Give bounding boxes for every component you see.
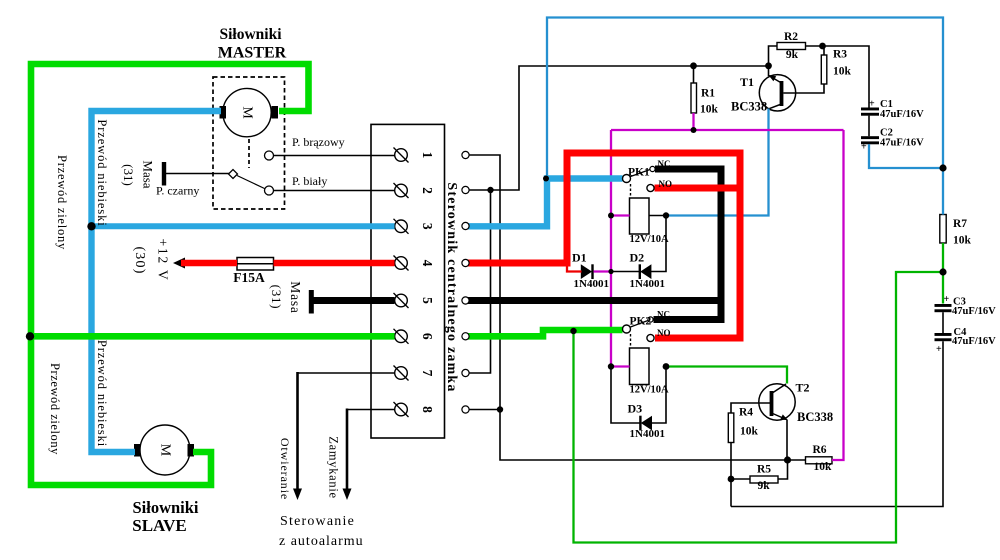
node magenta PK2 coil <box>608 363 614 369</box>
svg-text:1: 1 <box>420 152 435 159</box>
svg-text:7: 7 <box>420 370 435 377</box>
svg-text:Przewód niebieski: Przewód niebieski <box>95 340 109 447</box>
wire T1 collector to R3 bottom <box>783 84 824 93</box>
resistor R7 <box>940 215 946 244</box>
connector circle row 2 <box>462 186 469 193</box>
motor MASTER right tab <box>272 106 279 119</box>
svg-text:1N4001: 1N4001 <box>574 278 609 290</box>
wire thin red fuse branch to D1 anode <box>567 262 582 272</box>
svg-text:NC: NC <box>658 159 671 169</box>
node R1 bottom magenta <box>691 127 697 133</box>
wire thick red terminal4 right up and over to PK relays <box>468 153 740 338</box>
wire terminal8 circle to vertical bus <box>469 409 501 411</box>
svg-text:Zamykanie: Zamykanie <box>327 436 341 499</box>
svg-text:5: 5 <box>420 297 435 304</box>
svg-text:47uF/16V: 47uF/16V <box>880 109 924 120</box>
terminal 7 <box>394 366 409 381</box>
svg-text:47uF/16V: 47uF/16V <box>952 336 996 347</box>
connector circle row 3 <box>462 222 469 229</box>
relay PK2 NO contact <box>647 334 654 341</box>
motor SLAVE right tab <box>188 444 195 457</box>
wire D2 cathode row and up to PK1 coil junction <box>611 271 639 273</box>
transistor T2 <box>759 384 795 420</box>
ground bar Masa31 terminal5 <box>309 290 314 314</box>
node thin green taps thick green <box>570 328 576 334</box>
wire thick green terminal6 left <box>31 333 395 340</box>
svg-text:(31): (31) <box>269 285 284 310</box>
wire T2 emitter down to node <box>786 420 788 461</box>
svg-text:+: + <box>869 99 875 110</box>
svg-text:Przewód niebieski: Przewód niebieski <box>95 119 109 226</box>
svg-text:10k: 10k <box>700 104 719 116</box>
node green R7 junction <box>939 268 946 275</box>
svg-text:1N4001: 1N4001 <box>630 428 665 440</box>
contact circle P.bialy <box>265 186 274 195</box>
relay PK2 NC contact <box>648 317 653 322</box>
svg-text:Przewód zielony: Przewód zielony <box>48 363 62 455</box>
wire R5 right up to emitter node <box>778 460 788 479</box>
motor MASTER left tab <box>220 106 227 119</box>
wire C4 bottom down and left to R4/R5 node <box>731 341 943 506</box>
wire D3 cathode to PK2 coil right junction <box>652 367 667 424</box>
svg-text:Masa: Masa <box>288 281 303 313</box>
wire magenta bus horizontal R1 bottom <box>611 129 844 131</box>
wire thick black terminal5 left to ground <box>313 297 395 304</box>
wire thick black terminal5 right <box>468 297 721 304</box>
svg-text:Sterownik centralnego zamka: Sterownik centralnego zamka <box>444 182 459 392</box>
THIN-BLACK-WIRES <box>166 46 943 507</box>
capacitor C1 <box>861 108 879 116</box>
svg-text:10k: 10k <box>814 461 833 473</box>
wire magenta bus vertical to relay coils <box>610 130 612 367</box>
THIN-COLOR-WIRES <box>547 18 943 543</box>
svg-text:R4: R4 <box>739 407 753 419</box>
svg-text:47uF/16V: 47uF/16V <box>952 306 996 317</box>
diode D2 <box>639 264 652 279</box>
svg-text:4: 4 <box>420 260 435 267</box>
svg-text:D3: D3 <box>628 402 643 416</box>
relay PK2 dashed link <box>630 334 632 348</box>
svg-text:BC338: BC338 <box>731 100 767 114</box>
wire PK1 coil right to junction <box>649 215 666 217</box>
svg-text:P. czarny: P. czarny <box>156 184 199 198</box>
wire R6 left stub <box>788 459 806 461</box>
wire R3 top stub <box>823 46 825 55</box>
connector circle row 4 <box>462 259 469 266</box>
svg-text:M: M <box>240 106 255 119</box>
connector circle row 5 <box>462 297 469 304</box>
wire between C3 and C4 <box>942 312 944 333</box>
wire thick red branch to PK1 NO <box>655 185 741 192</box>
svg-text:R5: R5 <box>757 464 771 476</box>
relay PK1 lever <box>631 170 651 177</box>
resistor R4 <box>728 413 734 443</box>
svg-text:PK2: PK2 <box>630 316 652 328</box>
fuse F15A <box>237 258 274 271</box>
wire thick green left big loop <box>31 64 309 485</box>
svg-text:P. brązowy: P. brązowy <box>292 135 345 149</box>
wire T1 base stub <box>768 65 770 76</box>
node R4 R5 junction <box>728 476 735 483</box>
connector circle row 8 <box>462 406 469 413</box>
wire R1 top stub <box>693 66 695 83</box>
svg-text:D2: D2 <box>630 251 645 265</box>
capacitor C2 <box>861 136 879 144</box>
node magenta D1 D2 row <box>608 269 613 274</box>
svg-text:P. biały: P. biały <box>292 174 327 188</box>
node terminal2 branch <box>487 187 493 193</box>
svg-text:NC: NC <box>657 310 670 320</box>
transistor T1 <box>759 75 795 111</box>
wire PK2 coil left node down to D3 anode <box>611 367 640 424</box>
node R2 R3 junction <box>819 43 826 50</box>
svg-text:6: 6 <box>420 333 435 340</box>
wire magenta R1 bottom stub <box>692 113 694 130</box>
wire thick red fuse to terminal4 <box>274 260 395 267</box>
svg-text:(31): (31) <box>121 164 136 186</box>
wire thin green long loop to thick green wire <box>574 272 944 543</box>
svg-text:Otwieranie: Otwieranie <box>278 438 292 500</box>
node PK2 coil right <box>663 363 670 370</box>
wire R5 left stub <box>731 478 750 480</box>
svg-text:10k: 10k <box>833 66 852 78</box>
arrowhead Zamykanie <box>343 489 352 501</box>
switch lever <box>237 176 265 189</box>
svg-text:12V/10A: 12V/10A <box>630 234 670 245</box>
svg-text:47uF/16V: 47uF/16V <box>880 138 924 149</box>
svg-text:12V/10A: 12V/10A <box>630 385 670 396</box>
wire thin blue T1 emitter to PK1 coil junction <box>666 109 769 216</box>
terminal 4 <box>394 256 409 271</box>
relay PK2 coil <box>630 348 650 385</box>
capacitor C3 <box>935 304 952 312</box>
wire thin blue C2 bottom to right bus <box>869 144 943 168</box>
terminal 6 <box>394 329 409 344</box>
relay PK1 NO contact <box>647 184 654 191</box>
wire thick green terminal6 right to PK2 common <box>468 330 623 336</box>
node T2 emitter R5 R6 junction <box>784 456 791 463</box>
svg-text:Sterowanie: Sterowanie <box>280 514 355 529</box>
wire thick cyan blue loop MASTER to SLAVE <box>92 111 222 452</box>
node T1 base <box>765 62 772 69</box>
svg-text:M: M <box>158 444 173 457</box>
capacitor C4 <box>935 333 952 341</box>
wire P.bialy contact to terminal 2 <box>274 190 395 192</box>
node R1 top <box>690 62 697 69</box>
wire thin green R7 bottom to C3 <box>942 243 944 304</box>
wire terminal2 circle right, up and across top to T1 base <box>469 66 769 190</box>
wire magenta right vertical to R6 <box>832 130 844 460</box>
svg-text:+: + <box>936 344 942 355</box>
wire thick cyan terminal3 right to PK1 common <box>468 179 623 227</box>
wire terminal 8 to Zamykanie arrow <box>347 409 395 411</box>
ground bar Masa31 master <box>162 162 166 186</box>
resistor R2 <box>777 43 806 50</box>
svg-text:NO: NO <box>659 179 673 189</box>
diode D1 <box>581 264 594 279</box>
THICK-WIRES <box>31 64 740 485</box>
motor SLAVE circle <box>140 425 190 475</box>
relay PK1 coil <box>630 198 650 234</box>
wire R2 right to C1 top <box>806 46 870 108</box>
svg-text:BC338: BC338 <box>797 410 833 424</box>
terminal 8 <box>394 402 409 417</box>
wire between C1 and C2 <box>868 116 870 137</box>
svg-text:8: 8 <box>420 406 435 413</box>
wire magenta stub to PK1 coil <box>611 214 630 216</box>
dashed box MASTER actuator <box>213 77 285 209</box>
svg-text:1N4001: 1N4001 <box>630 278 665 290</box>
svg-text:T1: T1 <box>740 75 754 89</box>
terminal 5 <box>394 293 409 308</box>
svg-text:T2: T2 <box>796 381 810 395</box>
wire T1 node up to R2 left <box>769 46 778 65</box>
resistor R5 <box>750 476 778 483</box>
svg-text:NO: NO <box>657 328 671 338</box>
wire magenta D1 cathode to bus <box>594 270 612 272</box>
relay PK1 dashed link <box>630 184 632 198</box>
svg-text:MASTER: MASTER <box>218 45 287 62</box>
wire D2 anode to coil junction <box>651 216 666 272</box>
CONTACT-CIRCLES (above wires) <box>462 151 655 413</box>
resistor R6 <box>806 457 833 464</box>
arrowhead Otwieranie <box>293 489 302 501</box>
svg-text:R7: R7 <box>953 218 967 230</box>
svg-text:+: + <box>861 142 867 153</box>
wire R4 top to T2 base <box>731 403 770 413</box>
wire thick cyan terminal3 left to blue vertical <box>92 223 395 229</box>
dashed link motor to switch <box>248 139 250 168</box>
wire thin blue junction down to R7 <box>942 168 944 215</box>
svg-text:F15A: F15A <box>233 270 265 285</box>
wire thick black PK1 NC to PK2 NC <box>654 169 722 320</box>
connector circle row 1 <box>462 151 469 158</box>
terminal 2 <box>394 183 409 198</box>
relay PK1 NC contact <box>650 166 655 171</box>
wire thick red +12V arrow to fuse <box>181 260 237 267</box>
node magenta PK1 coil <box>608 213 614 219</box>
svg-text:10k: 10k <box>740 426 759 438</box>
svg-text:D1: D1 <box>572 251 587 265</box>
svg-text:R2: R2 <box>784 31 798 43</box>
svg-text:+: + <box>944 294 950 305</box>
svg-text:Masa: Masa <box>141 160 156 188</box>
svg-text:3: 3 <box>420 223 435 230</box>
motor MASTER circle <box>223 88 271 136</box>
node green left junction <box>26 332 34 340</box>
svg-text:9k: 9k <box>758 480 771 492</box>
node PK1 coil right <box>663 212 669 218</box>
terminal 1 <box>394 148 409 163</box>
svg-text:R3: R3 <box>833 49 847 61</box>
svg-text:R6: R6 <box>813 444 827 456</box>
node blue C2 junction <box>939 164 946 171</box>
terminal 3 <box>394 219 409 234</box>
connector circle row 7 <box>462 369 469 376</box>
connector circle row 6 <box>462 333 469 340</box>
motor SLAVE left tab <box>134 444 141 457</box>
wire ground bar to switch pivot <box>166 173 229 175</box>
wire node1 right: terminal1 circle right and down to bottom bus <box>469 155 788 460</box>
svg-text:(30): (30) <box>132 246 147 274</box>
wire magenta stub to PK2 coil <box>611 365 630 367</box>
wire terminal7 circle to vertical joining terminal2 node <box>469 190 491 373</box>
wire thin green PK2 coil junction to T2 collector <box>666 367 787 384</box>
svg-text:z autoalarmu: z autoalarmu <box>279 534 364 549</box>
terminal strip Sterownik centralnego zamka box <box>371 124 445 438</box>
wire thin blue top loop <box>547 18 943 179</box>
svg-text:Siłowniki: Siłowniki <box>219 26 282 43</box>
switch pivot diamond <box>229 170 238 179</box>
wire R4 bottom through to R5 node and bottom bus <box>730 443 732 507</box>
node blue left junction <box>87 222 95 230</box>
svg-text:9k: 9k <box>786 49 799 61</box>
wire terminal 7 to Otwieranie arrow <box>298 372 395 374</box>
relay PK1 common contact <box>623 175 631 183</box>
node terminal8 branch <box>497 406 503 412</box>
arrow +12V <box>173 258 185 269</box>
contact circle P.brazowy <box>265 151 274 160</box>
svg-text:SLAVE: SLAVE <box>132 516 187 535</box>
node thin blue joins cyan <box>543 176 549 182</box>
svg-text:R1: R1 <box>701 88 715 100</box>
svg-text:+12 V: +12 V <box>156 239 171 282</box>
svg-text:Przewód zielony: Przewód zielony <box>55 155 69 250</box>
diode D3 <box>639 416 652 431</box>
svg-text:Siłowniki: Siłowniki <box>132 498 198 517</box>
relay PK2 common contact <box>623 325 631 333</box>
svg-text:2: 2 <box>420 187 435 194</box>
relay PK2 lever <box>631 321 649 328</box>
svg-text:10k: 10k <box>953 235 972 247</box>
resistor R3 <box>821 55 827 84</box>
resistor R1 <box>691 83 697 113</box>
svg-text:PK1: PK1 <box>628 167 650 179</box>
wire P.brazowy contact to terminal 1 <box>274 155 395 157</box>
